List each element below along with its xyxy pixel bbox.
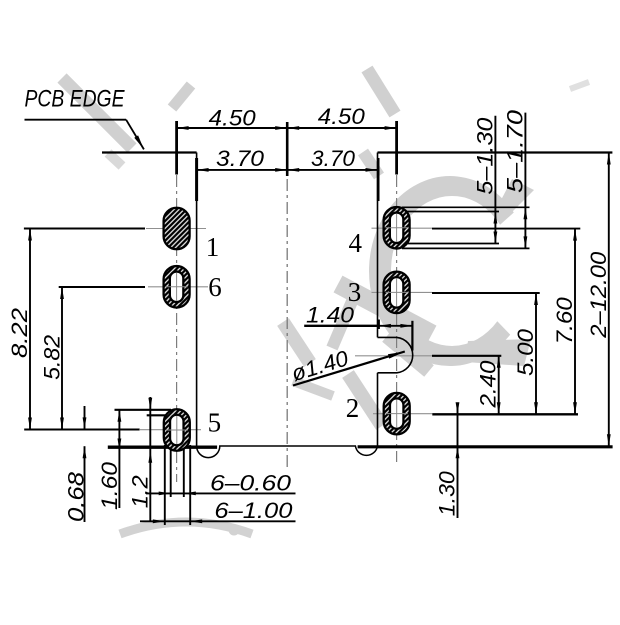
dimension 5-1.70 bbox=[524, 113, 526, 208]
leader and label for post hole diameter bbox=[293, 352, 405, 386]
dimension 2.40 bbox=[498, 356, 500, 415]
dimension 1.60 bbox=[118, 410, 120, 508]
pad5 edge extension lines down bbox=[164, 445, 166, 525]
pad4 hole bottom extension bbox=[402, 243, 499, 245]
svg-text:0.68: 0.68 bbox=[64, 471, 89, 522]
svg-text:2–12.00: 2–12.00 bbox=[586, 251, 611, 339]
dimension 1.40 (slot offset) bbox=[304, 325, 379, 327]
svg-text:3: 3 bbox=[348, 277, 362, 307]
node line pad4 bbox=[372, 227, 433, 229]
svg-text:5–1.30: 5–1.30 bbox=[472, 117, 497, 195]
bottom reference line left (thick) bbox=[108, 446, 217, 449]
cutout left wall bbox=[196, 153, 198, 447]
svg-text:3.70: 3.70 bbox=[311, 146, 356, 171]
extension tick left pad column bbox=[175, 121, 178, 175]
svg-text:2.40: 2.40 bbox=[476, 360, 501, 409]
center axis dash-dot line bbox=[286, 179, 288, 470]
hole crosshairs bbox=[176, 273, 178, 301]
svg-text:1.60: 1.60 bbox=[97, 461, 122, 510]
svg-text:5: 5 bbox=[208, 408, 222, 438]
extension tick right wall bbox=[377, 158, 380, 201]
dimension 4.50 right bbox=[287, 127, 396, 129]
cutout right wall upper bbox=[377, 153, 379, 338]
node line pad1 bbox=[146, 228, 206, 230]
pad3 center extension line bbox=[432, 292, 540, 294]
pad4 center extension line bbox=[432, 228, 580, 230]
svg-text:4.50: 4.50 bbox=[209, 105, 257, 130]
svg-text:3.70: 3.70 bbox=[216, 146, 265, 171]
dimension 6-0.60 bbox=[146, 492, 296, 494]
svg-text:6–0.60: 6–0.60 bbox=[210, 471, 292, 496]
dimension 3.70 right bbox=[287, 169, 377, 171]
right pad column centerline bbox=[396, 175, 398, 462]
dimension 3.70 left bbox=[197, 169, 288, 171]
svg-text:4: 4 bbox=[349, 228, 363, 258]
svg-text:4.50: 4.50 bbox=[318, 104, 366, 129]
dimension 8.22 bbox=[29, 229, 31, 430]
dimension 5-1.30 bbox=[494, 116, 496, 212]
dimension 1.30 bbox=[457, 405, 459, 518]
pad 6 bbox=[164, 266, 190, 308]
pad 4 bbox=[384, 207, 410, 249]
dimension 5.00 bbox=[535, 293, 537, 414]
cutout bottom edge with corner notches bbox=[197, 446, 378, 458]
pad5 hole top extension line bbox=[147, 414, 171, 416]
dimension 2-12.00 bbox=[608, 153, 610, 447]
watermark logo bbox=[62, 69, 589, 536]
PCB edge left segment bbox=[102, 151, 197, 153]
dimension 7.60 bbox=[574, 229, 576, 415]
svg-text:2: 2 bbox=[346, 393, 360, 423]
node line pad6 bbox=[148, 286, 208, 288]
pad 2 bbox=[384, 393, 410, 435]
pad 3 bbox=[384, 272, 410, 314]
svg-text:PCB EDGE: PCB EDGE bbox=[25, 86, 126, 113]
pad4 hole top extension bbox=[402, 211, 499, 213]
node line pad3 bbox=[372, 291, 433, 293]
bottom reference line right (thick) bbox=[358, 445, 613, 448]
PCB edge right segment bbox=[378, 151, 613, 153]
pad 5 bbox=[164, 409, 190, 451]
node line pad5 bbox=[140, 429, 201, 431]
left pad column centerline bbox=[176, 175, 178, 482]
pad6 center extension line bbox=[59, 286, 145, 288]
svg-text:6: 6 bbox=[208, 272, 222, 302]
node line pad2 bbox=[373, 413, 432, 415]
svg-text:1: 1 bbox=[206, 232, 220, 262]
pad5 center extension line bbox=[24, 429, 139, 431]
pad1 center extension line bbox=[24, 228, 145, 230]
node line post hole bbox=[355, 355, 432, 357]
pad4 bottom extension bbox=[402, 247, 530, 249]
dimension 6-1.00 bbox=[140, 520, 296, 522]
post hole channel and semicircle bbox=[378, 337, 413, 372]
extension tick right pad column bbox=[395, 121, 398, 175]
dimension 1.2 bbox=[149, 397, 151, 521]
pad2 center extension line bbox=[432, 413, 578, 415]
svg-text:1.30: 1.30 bbox=[435, 470, 460, 516]
extension tick centerline bbox=[286, 122, 289, 176]
extension tick left wall bbox=[195, 158, 198, 201]
pad 1 (filled) bbox=[164, 208, 190, 250]
dimension 5.82 bbox=[61, 287, 63, 430]
svg-text:7.60: 7.60 bbox=[552, 296, 577, 344]
svg-text:5–1.70: 5–1.70 bbox=[502, 109, 527, 193]
dimension 0.68 bbox=[84, 406, 86, 429]
pad4 top extension bbox=[402, 206, 530, 208]
cutout right wall lower bbox=[377, 373, 379, 446]
dimension 4.50 left bbox=[177, 127, 288, 129]
svg-text:5.82: 5.82 bbox=[39, 335, 64, 380]
svg-text:8.22: 8.22 bbox=[7, 308, 32, 358]
post center extension line bbox=[432, 355, 501, 357]
svg-text:5.00: 5.00 bbox=[513, 328, 538, 376]
pad5 top extension line bbox=[115, 409, 172, 411]
svg-text:1.2: 1.2 bbox=[128, 475, 153, 508]
svg-text:6–1.00: 6–1.00 bbox=[214, 498, 293, 523]
